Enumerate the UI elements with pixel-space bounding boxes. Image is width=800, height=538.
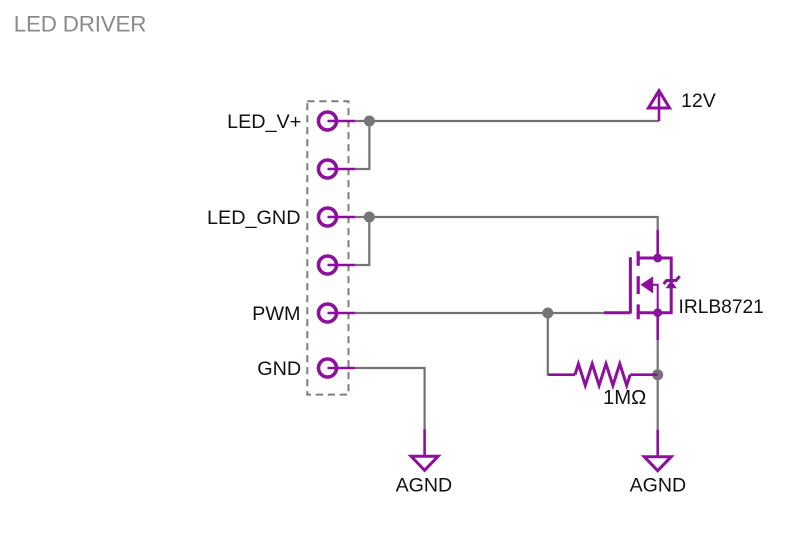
Q1 drain connect [638, 257, 658, 260]
connector pin 2 [319, 160, 356, 178]
wire pin2 to node V+ [355, 121, 369, 169]
Q1 source stub [656, 313, 659, 340]
connector pin 6 [319, 359, 356, 377]
wire pin4 to node LED_GND [355, 217, 369, 265]
Q1 gate lead [604, 311, 630, 314]
Q1 source pin dot [653, 308, 662, 317]
Q1 substrate arrow [641, 276, 654, 293]
wire node PWM down to resistor R1 left [548, 313, 550, 375]
Q1 gate bar [629, 257, 632, 313]
node source-R1 junction [652, 369, 663, 380]
Q1 drain stub [656, 230, 659, 258]
Q1 body diode anode triangle [666, 280, 677, 288]
Q1 substrate lead [653, 285, 658, 313]
svg-text:1MΩ: 1MΩ [603, 387, 646, 409]
node V+ junction [364, 116, 375, 127]
wire net LED_V+ pin1 to 12V [355, 120, 659, 122]
wire source to node R1 right and AGND [657, 340, 659, 431]
Q1 channel dashes [637, 251, 640, 319]
transistor Q1 IRLB8721 [604, 230, 680, 340]
svg-text:PWM: PWM [252, 303, 300, 325]
connector pin 1 [319, 112, 356, 130]
connector pin 5 [319, 304, 356, 322]
connector pin 4 [319, 256, 356, 274]
resistor R1 1M [549, 364, 658, 386]
svg-text:LED DRIVER: LED DRIVER [14, 11, 146, 36]
svg-text:GND: GND [257, 358, 301, 380]
ground AGND right [644, 430, 671, 471]
Q1 body diode branch [658, 258, 672, 313]
node PWM junction [542, 308, 553, 319]
svg-text:IRLB8721: IRLB8721 [679, 297, 764, 318]
wire net PWM pin5 to gate [355, 312, 605, 314]
svg-text:12V: 12V [681, 90, 716, 112]
svg-text:AGND: AGND [396, 475, 453, 497]
power symbol 12V [648, 91, 669, 121]
Q1 body diode zener cathode [664, 276, 680, 284]
node LED_GND junction [364, 212, 375, 223]
Q1 source connect [638, 311, 658, 314]
ground AGND left [411, 429, 438, 470]
svg-text:AGND: AGND [630, 475, 687, 497]
wire net LED_GND pin3 to drain [355, 217, 658, 231]
connector J1 dashed outline [307, 101, 348, 394]
wire pin6 GND to AGND [355, 368, 425, 430]
svg-text:LED_GND: LED_GND [207, 207, 300, 229]
connector pin 3 [319, 208, 356, 226]
svg-text:LED_V+: LED_V+ [227, 111, 301, 133]
Q1 drain pin dot [653, 254, 662, 263]
